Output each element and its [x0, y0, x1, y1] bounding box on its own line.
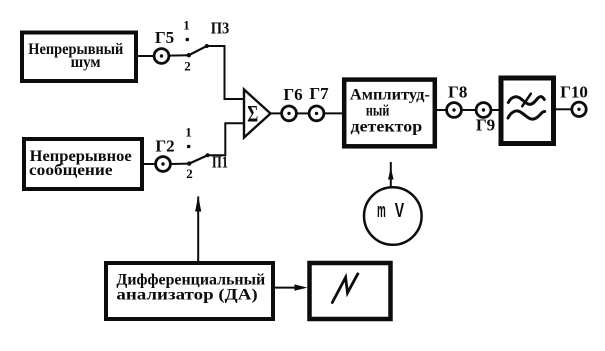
box: continuous message source (Непрерывное сообщение): [24, 139, 142, 189]
box: band filter with wave symbols: [501, 78, 554, 144]
wire: Г9 to filter: [491, 109, 499, 111]
wire: Г2 to switch П1 pivot: [170, 163, 189, 165]
meter mV: [364, 187, 422, 245]
svg-text:П3: П3: [211, 19, 230, 38]
wire: detector to Г8: [437, 109, 447, 111]
wire: filter to Г10: [556, 108, 572, 110]
svg-text:Г2: Г2: [155, 137, 174, 156]
summator op-amp Σ: [244, 90, 271, 138]
jack Г9: [476, 103, 495, 135]
wire: Г8 to Г9: [461, 109, 476, 111]
svg-text:Г5: Г5: [155, 28, 174, 47]
svg-text:V: V: [395, 200, 405, 222]
svg-text:Г10: Г10: [560, 83, 588, 102]
box: differential analyzer (Дифференциальный анализатор (ДА)): [106, 263, 273, 319]
svg-text:ный: ный: [366, 103, 389, 120]
svg-text:m: m: [377, 200, 386, 222]
svg-text:1: 1: [183, 18, 190, 33]
wire: message box to Г2: [142, 163, 156, 165]
box: continuous noise source (Непрерывный шум): [22, 33, 136, 82]
arrow: ДА up to switch П1: [195, 196, 201, 262]
generator jack Г5: [154, 28, 174, 63]
jack Г6: [282, 85, 303, 121]
jack Г7: [309, 84, 329, 121]
wire: Г6 to Г7: [296, 112, 309, 114]
svg-text:2: 2: [184, 59, 191, 74]
svg-text:шум: шум: [71, 54, 101, 71]
wire: Г5 to switch П3 pivot: [169, 54, 189, 56]
wire: summator apex to Г6: [271, 112, 282, 114]
svg-text:Г9: Г9: [476, 116, 495, 135]
wire: П3 to summator top input: [207, 46, 244, 99]
wire: Г7 to amplitude detector: [324, 112, 342, 114]
box: oscilloscope with waveform symbol: [310, 263, 391, 319]
switch П3 with contacts 1 and 2: [183, 18, 229, 74]
jack Г8: [447, 83, 468, 118]
wire: noise box to Г5: [136, 55, 155, 57]
svg-text:2: 2: [186, 166, 193, 181]
svg-text:1: 1: [185, 125, 192, 140]
wire: П1 to summator bottom input: [208, 123, 244, 155]
svg-text:Σ: Σ: [247, 101, 258, 126]
jack Г10: [560, 83, 588, 117]
svg-text:сообщение: сообщение: [29, 162, 113, 179]
svg-text:Амплитуд-: Амплитуд-: [350, 87, 430, 104]
arrow: ДА to oscilloscope: [275, 284, 308, 290]
box: amplitude detector (Амплитудный детектор): [344, 80, 435, 147]
svg-text:детектор: детектор: [351, 118, 423, 135]
svg-text:Г6: Г6: [283, 85, 302, 104]
arrow: meter mV up to detector: [388, 162, 394, 187]
svg-text:анализатор (ДА): анализатор (ДА): [116, 287, 257, 304]
svg-text:Г8: Г8: [448, 83, 467, 102]
switch П1 with contacts 1 and 2: [185, 125, 228, 181]
svg-text:Г7: Г7: [309, 84, 329, 103]
generator jack Г2: [155, 137, 174, 172]
